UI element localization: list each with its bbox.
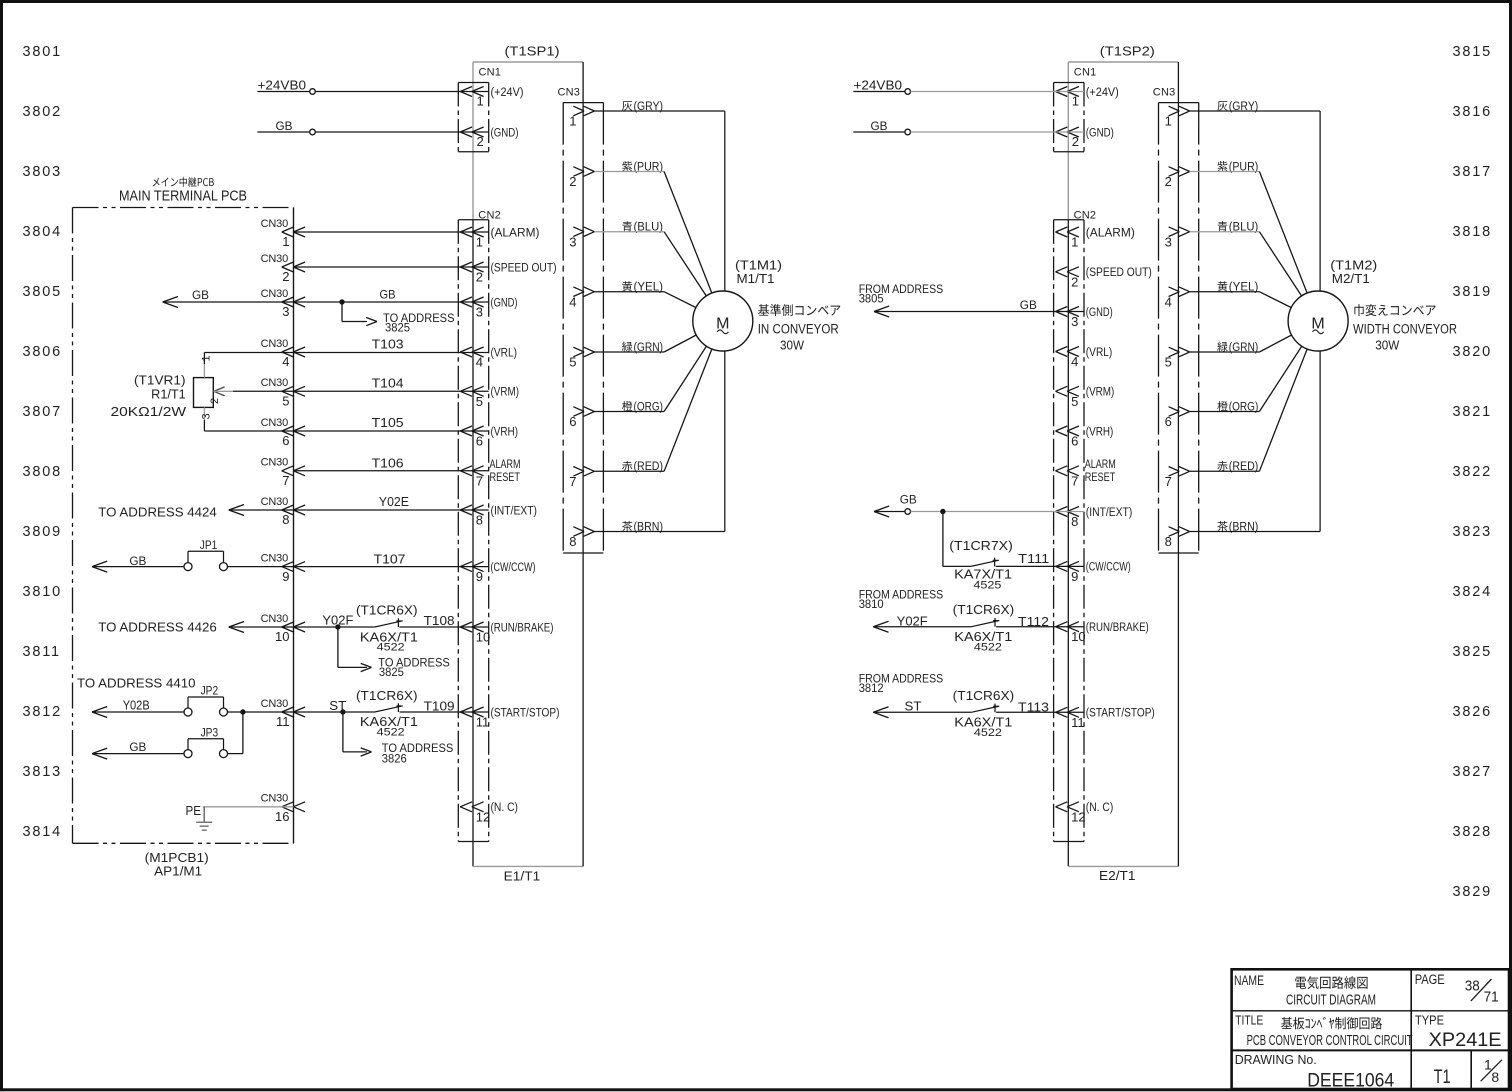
svg-text:3812: 3812 — [23, 704, 62, 720]
svg-text:4522: 4522 — [377, 727, 405, 739]
wire PE to CN30-16 — [186, 804, 294, 818]
svg-text:3827: 3827 — [1453, 764, 1492, 780]
connector CN1 — [1054, 67, 1097, 152]
relay contact T1CR7X (KA7X/T1) row 9 — [949, 539, 1013, 592]
svg-text:3822: 3822 — [1453, 464, 1492, 480]
svg-text:(CW/CCW): (CW/CCW) — [1086, 562, 1131, 574]
svg-text:(VRM): (VRM) — [1086, 387, 1115, 399]
CN30 pin 9 — [261, 552, 305, 583]
svg-text:CN3: CN3 — [558, 87, 581, 99]
svg-text:2: 2 — [477, 134, 484, 149]
title block sheet number 1/8 — [1481, 1057, 1502, 1086]
svg-text:3: 3 — [1165, 234, 1172, 249]
svg-text:20KΩ1/2W: 20KΩ1/2W — [111, 405, 187, 419]
svg-text:M2/T1: M2/T1 — [1332, 272, 1370, 286]
svg-text:(ALARM): (ALARM) — [491, 227, 540, 239]
svg-text:3818: 3818 — [1453, 224, 1492, 240]
CN2 pin 4 (VRL) — [1056, 347, 1113, 370]
label (M1PCB1) AP1/M1 — [145, 850, 209, 879]
svg-text:3805: 3805 — [23, 284, 62, 300]
svg-text:+24VB0: +24VB0 — [258, 79, 307, 93]
svg-text:ALARM: ALARM — [1085, 459, 1116, 471]
motor labels — [1330, 259, 1457, 353]
svg-text:(RUN/BRAKE): (RUN/BRAKE) — [491, 622, 554, 634]
CN2 pin 3 (GND) — [1056, 307, 1113, 330]
svg-text:PE: PE — [186, 804, 202, 818]
svg-text:(ALARM): (ALARM) — [1086, 227, 1135, 239]
svg-text:10: 10 — [1071, 629, 1085, 644]
svg-text:38: 38 — [1465, 978, 1480, 995]
CN30 pin 6 — [261, 417, 305, 448]
wire GB via jumper JP3 — [92, 712, 243, 759]
jumper JP1 — [184, 540, 228, 571]
left margin row numbers 3801-3814 — [23, 44, 62, 840]
svg-text:T1: T1 — [1434, 1067, 1451, 1088]
CN2 pin 2 (SPEED OUT) — [1056, 267, 1152, 290]
svg-text:11: 11 — [1071, 715, 1085, 730]
CN3 pin 2 wire 紫(PUR) — [569, 161, 723, 321]
svg-text:2: 2 — [209, 398, 221, 404]
svg-text:RESET: RESET — [1085, 472, 1116, 484]
svg-text:11: 11 — [276, 714, 290, 729]
CN30 pin 4 — [261, 338, 305, 369]
svg-text:CN30: CN30 — [261, 552, 288, 564]
svg-text:7: 7 — [569, 474, 576, 489]
svg-text:(START/STOP): (START/STOP) — [491, 707, 560, 719]
R1 pin 3 stub — [201, 407, 213, 431]
CN30 pin 8 — [261, 496, 305, 527]
svg-text:1: 1 — [569, 114, 576, 129]
svg-text:CN1: CN1 — [479, 67, 502, 79]
svg-text:IN CONVEYOR: IN CONVEYOR — [758, 322, 839, 337]
svg-text:(RUN/BRAKE): (RUN/BRAKE) — [1086, 622, 1149, 634]
connector CN3 — [558, 87, 604, 554]
relay contact T1CR6X (KA6X/T1) row 10 — [356, 604, 418, 654]
CN30 pin 16 — [261, 793, 305, 824]
CN30 pin 11 — [261, 698, 305, 729]
svg-text:3802: 3802 — [23, 104, 62, 120]
svg-text:DRAWING No.: DRAWING No. — [1235, 1053, 1317, 1067]
svg-text:(INT/EXT): (INT/EXT) — [491, 505, 538, 517]
svg-text:(VRM): (VRM) — [491, 387, 520, 399]
svg-text:GB: GB — [1020, 298, 1037, 312]
CN30 pin 1 — [261, 218, 305, 249]
junction node Y02F — [335, 624, 340, 629]
branch arrow TO ADDRESS 3825 (row 3) — [342, 302, 455, 335]
svg-text:3829: 3829 — [1453, 884, 1492, 900]
svg-text:(START/STOP): (START/STOP) — [1086, 708, 1155, 720]
svg-text:ST: ST — [905, 700, 922, 714]
svg-text:11: 11 — [476, 715, 490, 730]
svg-text:(T1CR6X): (T1CR6X) — [953, 689, 1015, 703]
junction node JP2/JP3 — [240, 709, 245, 714]
svg-text:4522: 4522 — [974, 727, 1002, 739]
svg-text:7: 7 — [282, 473, 289, 488]
connector CN2 — [458, 209, 501, 841]
svg-text:3826: 3826 — [382, 751, 407, 765]
svg-text:ALARM: ALARM — [490, 459, 521, 471]
CN3 pin 3 wire 青(BLU) — [569, 221, 723, 321]
svg-text:T107: T107 — [374, 552, 406, 567]
svg-text:(T1VR1): (T1VR1) — [134, 373, 186, 387]
svg-text:(T1CR7X): (T1CR7X) — [949, 539, 1013, 553]
svg-text:(VRH): (VRH) — [491, 426, 519, 438]
svg-text:3807: 3807 — [23, 404, 62, 420]
wire GB to CN1-2 — [257, 119, 488, 135]
label FROM ADDRESS 3805 — [859, 282, 944, 306]
svg-text:6: 6 — [282, 433, 289, 448]
svg-text:1: 1 — [282, 234, 289, 249]
svg-text:3801: 3801 — [23, 44, 62, 60]
svg-text:6: 6 — [1071, 434, 1078, 449]
svg-text:T104: T104 — [372, 376, 404, 391]
svg-text:CN30: CN30 — [261, 338, 288, 350]
motor M1 — [693, 291, 753, 351]
svg-text:Y02E: Y02E — [379, 494, 409, 509]
svg-text:GB: GB — [380, 288, 396, 302]
svg-text:JP2: JP2 — [201, 686, 219, 698]
wire T111 contact to CN2-9 (CW/CCW) right — [996, 551, 1084, 566]
svg-text:8: 8 — [282, 512, 289, 527]
svg-text:5: 5 — [569, 355, 576, 370]
svg-text:5: 5 — [282, 394, 289, 409]
svg-text:3810: 3810 — [23, 584, 62, 600]
svg-text:MAIN TERMINAL PCB: MAIN TERMINAL PCB — [119, 189, 247, 205]
wire T106 / CN30-7 to CN2-7 (ALARM RESET) — [294, 455, 489, 471]
title block frame — [1232, 969, 1509, 1089]
CN3 pin 8 wire 茶(BRN) — [569, 349, 725, 549]
CN30 pin 10 — [261, 613, 305, 644]
svg-text:3824: 3824 — [1453, 584, 1492, 600]
svg-text:8: 8 — [1165, 534, 1172, 549]
svg-text:DEEE1064: DEEE1064 — [1307, 1071, 1394, 1092]
wire T105 / R1-3 to CN2-6 (VRH) — [204, 415, 488, 431]
svg-text:(SPEED OUT): (SPEED OUT) — [1086, 267, 1152, 279]
svg-text:3812: 3812 — [859, 681, 884, 695]
svg-text:E1/T1: E1/T1 — [504, 869, 541, 884]
CN2 pin 1 (ALARM) — [460, 227, 539, 250]
svg-text:1: 1 — [476, 235, 483, 250]
svg-text:(GND): (GND) — [491, 297, 518, 309]
svg-text:CN3: CN3 — [1153, 87, 1176, 99]
wire T112 contact to CN2-10 (RUN/BRAKE) right — [996, 614, 1084, 629]
svg-text:10: 10 — [275, 629, 289, 644]
svg-text:8: 8 — [1071, 514, 1078, 529]
svg-text:9: 9 — [282, 569, 289, 584]
junction node ST — [340, 709, 345, 714]
svg-text:R1/T1: R1/T1 — [151, 388, 186, 402]
CN3 pin 7 wire 赤(RED) — [1165, 321, 1319, 489]
CN3 pin 1 wire 灰(GRY) — [569, 101, 725, 293]
CN2 pin 7 ALARM RESET — [1056, 459, 1116, 489]
svg-text:T109: T109 — [424, 698, 455, 713]
CN3 pin 3 wire 青(BLU) — [1165, 221, 1319, 321]
svg-text:CN30: CN30 — [261, 457, 288, 469]
svg-text:7: 7 — [1165, 474, 1172, 489]
CN2 pin 7 ALARM RESET — [460, 459, 520, 489]
CN2 pin 6 (VRH) — [460, 426, 518, 449]
PCB enclosure MAIN TERMINAL PCB (M1PCB1) — [73, 177, 294, 843]
svg-text:GB: GB — [900, 493, 917, 507]
wire T113 contact to CN2-11 (START/STOP) right — [996, 700, 1084, 715]
relay contact T1CR6X (KA6X/T1) row 11 — [356, 689, 418, 739]
svg-text:3819: 3819 — [1453, 284, 1492, 300]
svg-text:E2/T1: E2/T1 — [1099, 868, 1136, 883]
svg-text:2: 2 — [1071, 274, 1078, 289]
CN2 pin 6 (VRH) — [1056, 426, 1114, 449]
motor M2 — [1288, 291, 1348, 351]
svg-text:T103: T103 — [372, 337, 404, 352]
wire Y02F to relay contact row 10 right — [873, 615, 971, 633]
CN30 pin 3 — [261, 288, 305, 319]
svg-text:RESET: RESET — [490, 472, 521, 484]
CN2 pin 8 (INT/EXT) — [1056, 507, 1133, 530]
svg-text:3826: 3826 — [1453, 704, 1492, 720]
svg-text:3825: 3825 — [1453, 644, 1492, 660]
potentiometer R1/T1 (T1VR1) 20K ohm — [111, 373, 214, 419]
svg-text:1: 1 — [477, 94, 484, 109]
svg-text:GB: GB — [129, 740, 146, 754]
wire T103 / R1-1 to CN2-4 (VRL) — [204, 337, 488, 353]
svg-text:5: 5 — [476, 394, 483, 409]
CN2 pin 2 (SPEED OUT) — [460, 262, 556, 285]
svg-text:(T1M2): (T1M2) — [1330, 259, 1377, 273]
module outline T1SP2 — [1068, 62, 1178, 866]
svg-text:WIDTH CONVEYOR: WIDTH CONVEYOR — [1353, 322, 1457, 337]
wire Y02E / TO ADDRESS 4424 to CN2-8 (INT/EXT) — [98, 494, 488, 520]
svg-text:CN30: CN30 — [261, 377, 288, 389]
svg-text:8: 8 — [476, 513, 483, 528]
svg-text:CN30: CN30 — [261, 613, 288, 625]
CN3 pin 5 wire 緑(GRN) — [1165, 321, 1319, 370]
CN1 pin 2 (GND) — [1056, 127, 1114, 149]
svg-text:TO ADDRESS 4410: TO ADDRESS 4410 — [77, 677, 196, 691]
svg-text:CN1: CN1 — [1074, 67, 1097, 79]
CN1 pin 1 (+24V) — [1056, 87, 1119, 109]
svg-text:3821: 3821 — [1453, 404, 1492, 420]
CN2 pin 10 (RUN/BRAKE) — [460, 622, 553, 645]
svg-text:7: 7 — [476, 473, 483, 488]
CN2 pin 4 (VRL) — [460, 347, 517, 370]
svg-text:3820: 3820 — [1453, 344, 1492, 360]
svg-text:3817: 3817 — [1453, 164, 1492, 180]
R1 pin 1 stub — [201, 353, 213, 378]
svg-text:5: 5 — [1165, 355, 1172, 370]
svg-text:9: 9 — [476, 569, 483, 584]
svg-text:1: 1 — [1165, 114, 1172, 129]
svg-text:(SPEED OUT): (SPEED OUT) — [491, 262, 557, 274]
svg-text:(VRL): (VRL) — [491, 347, 518, 359]
svg-text:8: 8 — [1491, 1069, 1499, 1085]
svg-text:T113: T113 — [1018, 700, 1049, 715]
svg-text:3803: 3803 — [23, 164, 62, 180]
svg-text:(VRH): (VRH) — [1086, 426, 1114, 438]
svg-text:CIRCUIT DIAGRAM: CIRCUIT DIAGRAM — [1286, 992, 1376, 1009]
svg-text:(CW/CCW): (CW/CCW) — [491, 562, 536, 574]
CN2 pin 11 (START/STOP) — [460, 707, 559, 730]
svg-text:GB: GB — [129, 554, 146, 568]
svg-text:Y02B: Y02B — [123, 699, 150, 713]
svg-text:6: 6 — [476, 434, 483, 449]
svg-text:8: 8 — [569, 534, 576, 549]
module outline T1SP1 — [473, 62, 583, 866]
svg-text:(GND): (GND) — [491, 127, 519, 139]
svg-text:3814: 3814 — [23, 824, 62, 840]
CN3 pin 6 wire 橙(ORG) — [1165, 321, 1319, 429]
svg-text:10: 10 — [476, 630, 490, 645]
CN3 pin 4 wire 黄(YEL) — [569, 281, 723, 321]
svg-text:(GND): (GND) — [1086, 307, 1113, 319]
svg-text:ST: ST — [329, 699, 346, 713]
svg-text:3: 3 — [1071, 314, 1078, 329]
svg-text:(+24V): (+24V) — [491, 87, 524, 99]
svg-text:GB: GB — [192, 288, 209, 302]
CN3 pin 7 wire 赤(RED) — [569, 321, 723, 489]
connector CN1 — [458, 67, 501, 152]
CN2 pin 1 (ALARM) — [1056, 227, 1135, 250]
right margin row numbers 3815-3829 — [1453, 44, 1492, 900]
CN3 pin 8 wire 茶(BRN) — [1165, 349, 1321, 549]
svg-text:2: 2 — [282, 269, 289, 284]
svg-text:+24VB0: +24VB0 — [854, 79, 903, 93]
svg-text:T111: T111 — [1018, 551, 1049, 566]
svg-text:M: M — [716, 316, 729, 333]
svg-text:30W: 30W — [780, 338, 805, 353]
svg-text:4: 4 — [1071, 354, 1078, 369]
svg-text:(GND): (GND) — [1086, 127, 1114, 139]
CN3 pin 4 wire 黄(YEL) — [1165, 281, 1319, 321]
svg-text:2: 2 — [1165, 174, 1172, 189]
svg-text:GB: GB — [871, 119, 888, 133]
wire +24VB0 to CN1-1 — [257, 79, 488, 95]
svg-text:(N. C): (N. C) — [1086, 802, 1114, 814]
svg-text:(T1SP1): (T1SP1) — [505, 44, 560, 59]
svg-text:GB: GB — [276, 119, 293, 133]
junction node GB right — [940, 509, 945, 514]
svg-text:(T1CR6X): (T1CR6X) — [953, 603, 1015, 617]
CN30 pin 7 — [261, 457, 305, 488]
title block PAGE cell — [1415, 972, 1499, 1006]
relay contact T1CR6X (KA6X/T1) row 11 right — [953, 689, 1015, 739]
connector CN2 — [1054, 209, 1097, 841]
svg-text:T105: T105 — [372, 415, 404, 430]
CN2 pin 9 (CW/CCW) — [460, 562, 535, 585]
wire CN30-1 to CN2-1 (ALARM) — [294, 231, 489, 233]
CN3 pin 1 wire 灰(GRY) — [1165, 101, 1321, 293]
svg-text:(INT/EXT): (INT/EXT) — [1086, 507, 1133, 519]
svg-text:CN30: CN30 — [261, 417, 288, 429]
wire Y02B via jumper JP2 to CN30-11 — [92, 699, 375, 718]
wire CN30-2 to CN2-2 (SPEED OUT) — [294, 266, 489, 268]
svg-text:3808: 3808 — [23, 464, 62, 480]
title block TITLE cell — [1235, 1013, 1412, 1050]
connector CN3 — [1153, 87, 1199, 554]
svg-text:AP1/M1: AP1/M1 — [154, 863, 202, 878]
CN30 pin 5 — [261, 377, 305, 408]
jumper JP2 — [184, 686, 228, 717]
svg-text:4: 4 — [569, 294, 576, 309]
CN2 pin 5 (VRM) — [460, 386, 519, 409]
svg-text:3825: 3825 — [385, 321, 410, 335]
wire T109 contact to CN2-11 (START/STOP) — [400, 698, 489, 713]
svg-text:(T1M1): (T1M1) — [735, 259, 782, 273]
svg-text:30W: 30W — [1375, 338, 1400, 353]
jumper JP3 — [184, 727, 228, 757]
wire T104 / R1-2 to CN2-5 (VRM) — [233, 376, 489, 392]
svg-text:1: 1 — [1072, 94, 1079, 109]
svg-text:3816: 3816 — [1453, 104, 1492, 120]
wire GB / CN30-3 to CN2-3 (GND) — [163, 288, 489, 308]
svg-text:(T1SP2): (T1SP2) — [1100, 44, 1155, 59]
svg-text:4: 4 — [282, 354, 289, 369]
branch wire down to CW/CCW row — [943, 512, 971, 567]
svg-text:5: 5 — [1071, 394, 1078, 409]
svg-text:CN30: CN30 — [261, 793, 288, 805]
CN2 pin 5 (VRM) — [1056, 386, 1115, 409]
svg-text:CN30: CN30 — [261, 496, 288, 508]
svg-text:CN30: CN30 — [261, 253, 288, 265]
svg-text:3: 3 — [476, 305, 483, 320]
R1 pin 2 wiper arrow — [209, 387, 233, 404]
svg-text:TO ADDRESS 4426: TO ADDRESS 4426 — [98, 621, 217, 635]
svg-text:9: 9 — [1071, 569, 1078, 584]
svg-text:PCB CONVEYOR CONTROL CIRCUIT: PCB CONVEYOR CONTROL CIRCUIT — [1247, 1032, 1413, 1049]
label FROM ADDRESS 3810 — [859, 588, 944, 612]
svg-text:JP1: JP1 — [200, 540, 218, 552]
svg-text:6: 6 — [1165, 414, 1172, 429]
motor labels — [735, 259, 840, 353]
svg-text:3809: 3809 — [23, 524, 62, 540]
title block NAME cell — [1234, 973, 1376, 1009]
branch arrow TO ADDRESS 3825 (row 10) — [338, 627, 450, 679]
svg-text:2: 2 — [1072, 134, 1079, 149]
CN2 pin 11 (START/STOP) — [1056, 707, 1155, 730]
svg-text:71: 71 — [1484, 989, 1499, 1006]
wire +24VB0 to CN1-1 (right) — [853, 79, 1084, 95]
title block DRAWING No cell — [1235, 1053, 1395, 1092]
svg-text:(T1CR6X): (T1CR6X) — [356, 689, 418, 703]
svg-text:3828: 3828 — [1453, 824, 1492, 840]
svg-text:(VRL): (VRL) — [1086, 347, 1113, 359]
svg-text:4522: 4522 — [377, 642, 405, 654]
svg-text:CN30: CN30 — [261, 218, 288, 230]
svg-text:2: 2 — [569, 174, 576, 189]
svg-text:4522: 4522 — [974, 641, 1002, 653]
svg-text:7: 7 — [1071, 473, 1078, 488]
svg-text:(+24V): (+24V) — [1086, 87, 1119, 99]
wire Y02F / TO ADDRESS 4426 to relay contact to CN2-10 (RUN/BRAKE) — [98, 614, 375, 635]
svg-text:3804: 3804 — [23, 224, 62, 240]
connector CN30 line — [293, 208, 295, 844]
wire T108 contact to CN2-10 — [400, 613, 489, 628]
wire GB via jumper JP1 to CN2-9 (CW/CCW) — [92, 552, 489, 573]
branch arrow TO ADDRESS 3826 (row 11) — [343, 712, 453, 765]
svg-text:3825: 3825 — [379, 665, 404, 679]
CN3 pin 6 wire 橙(ORG) — [569, 321, 723, 429]
CN1 pin 1 (+24V) — [460, 87, 523, 109]
svg-text:T108: T108 — [424, 613, 455, 628]
svg-text:M: M — [1311, 316, 1324, 333]
CN2 pin 9 (CW/CCW) — [1056, 561, 1131, 584]
svg-text:T112: T112 — [1018, 614, 1049, 629]
svg-text:1: 1 — [201, 355, 213, 361]
CN1 pin 2 (GND) — [460, 127, 518, 149]
svg-text:(N. C): (N. C) — [491, 802, 519, 814]
svg-text:3813: 3813 — [23, 764, 62, 780]
wire GB to CN2-8 (INT/EXT) right — [874, 493, 1084, 518]
wire GB to CN1-2 (right) — [853, 119, 1084, 135]
svg-text:4: 4 — [1165, 294, 1172, 309]
